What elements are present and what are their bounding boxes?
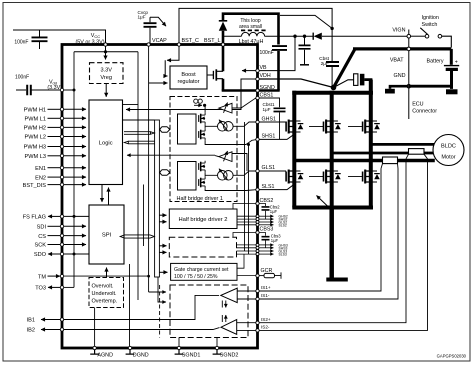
resistor RS2 shunt phase B bbox=[406, 149, 434, 159]
svg-text:Undervolt.: Undervolt. bbox=[92, 291, 118, 297]
svg-text:GND: GND bbox=[394, 73, 406, 79]
capacitor Cbs3 1uF bbox=[258, 233, 282, 248]
block gate driver HS1 bbox=[178, 114, 197, 144]
ground bar under battery bbox=[446, 86, 458, 94]
svg-text:SLS2: SLS2 bbox=[279, 224, 287, 228]
svg-text:Logic: Logic bbox=[99, 141, 113, 147]
pin BST_DIS bbox=[23, 183, 86, 189]
svg-text:1μF: 1μF bbox=[263, 107, 271, 112]
wire HS gate node bbox=[205, 105, 218, 128]
wire battery feed bbox=[334, 49, 452, 88]
svg-text:(5V or 3.3V): (5V or 3.3V) bbox=[75, 39, 104, 45]
IC pin contacts bottom edge bbox=[93, 346, 219, 349]
capacitor Cbst 2uF bbox=[319, 56, 339, 86]
wire IS2+ sense bbox=[258, 159, 407, 323]
svg-text:SGND: SGND bbox=[260, 85, 275, 91]
svg-text:PWM L2: PWM L2 bbox=[25, 135, 46, 141]
svg-text:IS2+: IS2+ bbox=[261, 317, 271, 322]
pin VIGN bbox=[392, 27, 410, 38]
pin SLS1 bbox=[258, 184, 295, 190]
pin PWM H1 bbox=[24, 108, 86, 114]
svg-text:BST_DIS: BST_DIS bbox=[23, 183, 47, 189]
svg-text:1μF: 1μF bbox=[270, 209, 278, 214]
block half bridge driver 2 bbox=[169, 209, 237, 229]
wire gate charge to SLS3 rail bbox=[237, 254, 244, 268]
svg-text:100 / 75 / 50 / 25%: 100 / 75 / 50 / 25% bbox=[174, 274, 218, 280]
pin PWM L2 bbox=[25, 135, 86, 141]
wire Overvolt to SPI arrow bbox=[106, 268, 108, 278]
wire BST_C external top rail bbox=[179, 8, 334, 61]
svg-text:regulator: regulator bbox=[177, 79, 199, 85]
transistor Q8 driver HS pull-up bbox=[199, 113, 205, 125]
inductor Lbst 47uH bbox=[223, 32, 279, 45]
wire GLS3 stub bbox=[258, 250, 271, 252]
svg-text:SDI: SDI bbox=[37, 225, 47, 231]
wire VB rail bbox=[279, 35, 408, 37]
svg-text:area small: area small bbox=[239, 24, 262, 30]
svg-text:CBS2: CBS2 bbox=[260, 198, 274, 204]
pin IS2- bbox=[261, 325, 270, 330]
wire VCC supply rail bbox=[13, 30, 106, 45]
pin VB bbox=[260, 65, 268, 71]
IC pin contacts right edge bbox=[256, 69, 259, 332]
pin BST_L bbox=[204, 38, 220, 44]
bus arrow to half bridge driver 1 LS bbox=[160, 170, 170, 175]
pin VCAP bbox=[152, 38, 167, 44]
wire SHS3 stub bbox=[258, 247, 271, 249]
wire SLS1 internal bbox=[205, 188, 257, 190]
wire bus to sense block arrow bbox=[158, 277, 166, 302]
transistor Q1 bridge HS1 bbox=[286, 120, 303, 134]
svg-text:BST_L: BST_L bbox=[204, 38, 220, 44]
pin TO3 bbox=[35, 286, 62, 292]
bus arrow Logic to bus bbox=[124, 132, 154, 135]
transistor Q6 bridge LS3 bbox=[348, 170, 380, 184]
svg-text:2μF: 2μF bbox=[321, 61, 329, 67]
transistor Q4 bridge LS1 bbox=[286, 170, 303, 184]
svg-text:EN2: EN2 bbox=[35, 175, 46, 181]
capacitor C4 VB bypass bbox=[299, 36, 311, 65]
pin IS1+ bbox=[261, 285, 271, 290]
pin CS bbox=[38, 234, 86, 240]
svg-text:AGND: AGND bbox=[97, 353, 113, 359]
wire LS gate node bbox=[205, 172, 218, 176]
block Boost regulator bbox=[170, 66, 207, 89]
svg-text:Gate charge current set: Gate charge current set bbox=[174, 267, 229, 273]
wire SHS1 internal bbox=[205, 139, 257, 146]
wire internal rail A bbox=[244, 122, 246, 251]
pin PWM L3 bbox=[25, 154, 86, 160]
wire CBS3 internal bbox=[233, 233, 258, 238]
node VCC label bbox=[75, 33, 104, 45]
pin SCK bbox=[34, 243, 86, 249]
wire SLS3 stub bbox=[258, 253, 271, 255]
wire Vdd input bbox=[16, 89, 26, 91]
wire IS1+ sense bbox=[258, 169, 382, 292]
pin EN1 bbox=[35, 166, 86, 172]
capacitor Cvcp 1uF on VCAP bbox=[138, 10, 167, 44]
transistor Q5 bridge LS2 bbox=[309, 170, 341, 184]
svg-text:100nF: 100nF bbox=[15, 75, 29, 81]
wire GND to battery minus bbox=[409, 85, 452, 88]
svg-text:PWM H3: PWM H3 bbox=[24, 145, 46, 151]
current mirror top bbox=[194, 99, 207, 107]
pin SDO bbox=[34, 252, 89, 258]
pin BST_C bbox=[182, 38, 199, 44]
pin IS2+ bbox=[261, 317, 271, 322]
gain select arrows U4 bbox=[222, 315, 226, 322]
svg-text:VDH: VDH bbox=[260, 73, 271, 79]
capacitor C5 DC-link electrolytic bbox=[334, 74, 372, 93]
bus dashed continuation bbox=[159, 285, 161, 338]
wire SPI to Logic arrow bbox=[108, 188, 110, 206]
pins GHS3 SHS3 GLS3 SLS3 bbox=[270, 243, 288, 256]
svg-text:100nF: 100nF bbox=[14, 40, 28, 46]
svg-text:SLS3: SLS3 bbox=[279, 253, 287, 257]
svg-text:VBAT: VBAT bbox=[390, 58, 404, 64]
motor M1 BLDC bbox=[433, 135, 464, 166]
wire VDH top bus bbox=[292, 91, 373, 95]
svg-text:DGND: DGND bbox=[133, 353, 149, 359]
svg-text:VCC: VCC bbox=[91, 33, 100, 39]
svg-text:GAPGPS02030: GAPGPS02030 bbox=[437, 354, 467, 359]
ECU connector boundary bbox=[409, 30, 437, 120]
pin GND bbox=[394, 73, 411, 88]
diode D1 boost bbox=[219, 21, 227, 45]
pin DGND bbox=[126, 264, 149, 359]
pin VBAT bbox=[390, 47, 411, 63]
svg-text:IB1: IB1 bbox=[27, 318, 35, 324]
comparator VDS HS bbox=[219, 103, 232, 114]
svg-text:Half bridge driver 2: Half bridge driver 2 bbox=[179, 217, 228, 223]
svg-text:IB2: IB2 bbox=[27, 328, 35, 334]
block gate charge current set bbox=[171, 263, 237, 280]
wire IB1 to op-amp U3 bbox=[62, 295, 219, 319]
pin SHS1 bbox=[258, 134, 295, 140]
capacitor C1 100nF (VCC bypass) bbox=[14, 30, 47, 49]
wire driver2 outputs bbox=[237, 216, 258, 225]
annotation loop area dashes bbox=[241, 29, 266, 31]
junction VB branch bbox=[293, 35, 296, 38]
svg-text:SLS1: SLS1 bbox=[262, 184, 275, 190]
diode D2 reverse battery bbox=[313, 33, 322, 40]
svg-text:BST_C: BST_C bbox=[182, 38, 199, 44]
wire VDH sense diagonal bbox=[258, 79, 334, 88]
pin CBS1 bbox=[260, 92, 274, 98]
wire GCR internal bbox=[237, 275, 258, 277]
pin SGND bbox=[260, 85, 275, 91]
block Overvolt Undervolt Overtemp bbox=[89, 278, 124, 308]
wire comparator to CBS1 bbox=[232, 98, 258, 108]
wire IS1- sense bbox=[258, 169, 399, 300]
svg-text:ECU: ECU bbox=[412, 102, 423, 108]
pin VDH bbox=[260, 73, 271, 79]
wire GLS1 internal bbox=[233, 171, 258, 175]
wire driver3 outputs bbox=[236, 245, 257, 254]
comparator VDS LS bbox=[219, 151, 232, 162]
pins GHS2 SHS2 GLS2 SLS2 bbox=[270, 215, 288, 228]
wire bridge column 1 bbox=[292, 91, 296, 208]
pin IB1 bbox=[27, 318, 62, 324]
annotation This loop area small bbox=[239, 18, 262, 30]
block 3.3V Vreg U2 bbox=[90, 63, 124, 84]
wire Vdd internal rail bbox=[62, 52, 76, 288]
svg-text:CBS3: CBS3 bbox=[260, 227, 274, 233]
pin IB2 bbox=[27, 328, 62, 334]
pin GCR bbox=[258, 268, 273, 276]
capacitor C3 100nF boost output bbox=[260, 46, 288, 90]
svg-text:Battery: Battery bbox=[427, 59, 444, 65]
wire phase A bbox=[294, 159, 382, 162]
wire phase B bbox=[332, 152, 409, 155]
op-amp U3 IS1 bbox=[221, 288, 258, 302]
wire Logic to bus top bbox=[123, 119, 155, 121]
svg-text:Overvolt.: Overvolt. bbox=[92, 284, 114, 290]
wire VCC internal distribution bbox=[74, 45, 138, 60]
svg-text:CS: CS bbox=[38, 234, 46, 240]
pin PWM L1 bbox=[25, 117, 86, 123]
wire BST_L internal bbox=[222, 45, 225, 91]
svg-text:GLS1: GLS1 bbox=[262, 165, 276, 171]
wire VCAP internal bbox=[149, 45, 168, 293]
pin CBS3 bbox=[260, 227, 274, 233]
svg-text:1μF: 1μF bbox=[138, 15, 146, 20]
svg-text:SCK: SCK bbox=[34, 243, 46, 249]
wire bridge ground stub bbox=[326, 208, 348, 282]
wire VB pin to rail bbox=[258, 36, 296, 70]
svg-text:Boost: Boost bbox=[181, 72, 196, 78]
wire bridge bottom bus bbox=[292, 206, 373, 210]
svg-text:1μF: 1μF bbox=[271, 238, 279, 243]
capacitor Cbs2 1uF bbox=[258, 204, 281, 220]
wire Logic to SPI arrow bbox=[101, 185, 103, 203]
capacitor C2 100nF (Vdd bypass) bbox=[15, 75, 62, 96]
battery BT1 bbox=[427, 49, 460, 87]
junction cap branch bbox=[303, 35, 306, 38]
block gate driver LS1 bbox=[178, 162, 197, 191]
svg-text:IS1-: IS1- bbox=[261, 293, 270, 298]
wire IB2 to op-amp U4 bbox=[62, 328, 220, 330]
current source LS bbox=[218, 169, 234, 180]
pin GLS1 bbox=[258, 165, 287, 171]
wire IS2- sense bbox=[258, 159, 428, 331]
transistor Q9 driver HS pull-down bbox=[199, 129, 205, 141]
block current sense dashed box bbox=[170, 285, 248, 338]
wire VB internal arrow bbox=[242, 70, 258, 72]
svg-text:TO3: TO3 bbox=[35, 286, 46, 292]
svg-text:Ignition: Ignition bbox=[422, 15, 439, 21]
svg-text:PWM H1: PWM H1 bbox=[24, 108, 46, 114]
svg-text:SGND2: SGND2 bbox=[220, 353, 239, 359]
transistor Q10 driver LS pull-up bbox=[199, 161, 205, 173]
svg-text:EN1: EN1 bbox=[35, 166, 46, 172]
svg-text:BLDC: BLDC bbox=[441, 144, 456, 150]
svg-text:Connector: Connector bbox=[412, 109, 437, 115]
svg-text:Lbst 47μH: Lbst 47μH bbox=[239, 39, 264, 45]
svg-text:PWM L1: PWM L1 bbox=[25, 117, 46, 123]
wire bridge column 2 bbox=[330, 91, 334, 208]
wire bridge column 3 bbox=[369, 80, 373, 208]
pin IS1- bbox=[261, 293, 270, 298]
pin FS FLAG bbox=[23, 215, 89, 221]
svg-text:+: + bbox=[455, 60, 458, 66]
ground bar at ECU GND bbox=[385, 86, 409, 93]
IC outline bbox=[62, 45, 258, 349]
pin EN2 bbox=[35, 175, 86, 181]
wire BST_C internal bbox=[165, 45, 179, 77]
wire boost return to SGND bbox=[222, 89, 280, 92]
bus arrows to half bridge driver 2 bbox=[159, 215, 166, 222]
svg-text:VCAP: VCAP bbox=[152, 38, 167, 44]
wire SLS2 stub bbox=[258, 224, 271, 226]
switch S1 ignition bbox=[411, 15, 452, 47]
wire GHS3 stub bbox=[258, 244, 271, 246]
junction FS FLAG rail bbox=[73, 215, 76, 256]
capacitor Cbst1 1uF bootstrap bbox=[258, 98, 286, 139]
pin PWM H2 bbox=[24, 126, 86, 132]
pin SGND2 bbox=[213, 338, 239, 359]
wire comparator LS junction bbox=[232, 154, 247, 172]
svg-text:SGND1: SGND1 bbox=[182, 353, 201, 359]
annotation arrow star ground bbox=[317, 196, 330, 209]
current source HS bbox=[218, 120, 234, 131]
transistor Q11 driver LS pull-down bbox=[199, 177, 205, 189]
svg-text:VIGN: VIGN bbox=[392, 27, 405, 33]
bus arrow SPI-bus bbox=[120, 235, 154, 238]
svg-text:Half bridge driver 1: Half bridge driver 1 bbox=[177, 196, 223, 202]
svg-text:SDO: SDO bbox=[34, 252, 47, 258]
IC pin contacts top edge bbox=[104, 43, 225, 46]
svg-text:IS1+: IS1+ bbox=[261, 285, 271, 290]
bus arrow bus to Logic bbox=[124, 141, 154, 144]
svg-text:SHS1: SHS1 bbox=[262, 134, 276, 140]
wire GHS2 stub bbox=[258, 215, 271, 217]
wire LS comparator to Logic bbox=[127, 155, 219, 156]
svg-text:IS2-: IS2- bbox=[261, 325, 270, 330]
transistor Q3 bridge HS3 bbox=[348, 120, 380, 134]
pin SDI bbox=[37, 225, 86, 231]
bus arrows to half bridge driver 3 bbox=[159, 246, 166, 253]
wire TM internal bbox=[62, 275, 166, 292]
svg-text:SPI: SPI bbox=[102, 233, 112, 239]
svg-text:Overtemp.: Overtemp. bbox=[92, 299, 118, 305]
svg-text:TM: TM bbox=[38, 274, 46, 280]
figure code label bbox=[437, 354, 467, 359]
wire VDH internal to Logic bbox=[126, 79, 258, 110]
block half bridge driver 1 box bbox=[170, 97, 237, 203]
IC pin contacts left edge bbox=[60, 88, 63, 331]
svg-text:Switch: Switch bbox=[422, 22, 438, 28]
wire boost loop top bbox=[223, 14, 279, 45]
pin GHS1 bbox=[258, 117, 287, 123]
pin SGND1 bbox=[175, 338, 201, 359]
wire Vreg to Logic bbox=[105, 84, 107, 97]
wire SHS2 stub bbox=[258, 218, 271, 220]
wire GLS2 stub bbox=[258, 221, 271, 223]
pin PWM H3 bbox=[24, 145, 86, 151]
svg-text:FS FLAG: FS FLAG bbox=[23, 215, 46, 221]
gain select arrows U3 bbox=[222, 301, 226, 308]
bus arrow to gate charge block bbox=[159, 271, 167, 273]
wire GHS1 internal bbox=[233, 122, 258, 126]
wire VCC branch down bbox=[137, 52, 139, 300]
node Vdd label bbox=[47, 80, 62, 92]
resistor RS1 shunt phase A bbox=[381, 157, 435, 169]
svg-text:100nF: 100nF bbox=[260, 50, 274, 56]
svg-text:VB: VB bbox=[260, 65, 268, 71]
block SPI bbox=[89, 205, 124, 264]
op-amp U4 IS2 bbox=[221, 320, 258, 335]
pin AGND bbox=[90, 308, 113, 359]
transistor Q7 boost switch bbox=[207, 69, 223, 80]
wire Logic bottom aux bbox=[143, 185, 145, 247]
node star point VDH bbox=[331, 85, 337, 91]
bus vertical bar bbox=[155, 120, 160, 277]
block half bridge driver 3 bbox=[169, 237, 236, 257]
pin CBS2 bbox=[260, 198, 274, 204]
pin TM bbox=[38, 274, 60, 280]
bus arrow to half bridge driver 1 HS bbox=[160, 127, 170, 132]
wire phase C bbox=[371, 143, 435, 146]
wire TO3 internal bbox=[62, 286, 74, 288]
svg-text:3.3V: 3.3V bbox=[100, 68, 112, 74]
svg-text:PWM H2: PWM H2 bbox=[24, 126, 46, 132]
block Logic bbox=[89, 100, 123, 185]
wire CBS2 internal bbox=[233, 204, 258, 210]
svg-text:Vreg: Vreg bbox=[100, 75, 112, 81]
svg-text:Motor: Motor bbox=[441, 155, 455, 161]
transistor Q2 bridge HS2 bbox=[309, 120, 341, 134]
wire VCC to Logic top bbox=[123, 104, 139, 106]
wire internal rail B bbox=[248, 145, 250, 255]
resistor R1 GCR bbox=[264, 272, 281, 278]
svg-text:PWM L3: PWM L3 bbox=[25, 154, 46, 160]
svg-text:CBS1: CBS1 bbox=[260, 92, 274, 98]
